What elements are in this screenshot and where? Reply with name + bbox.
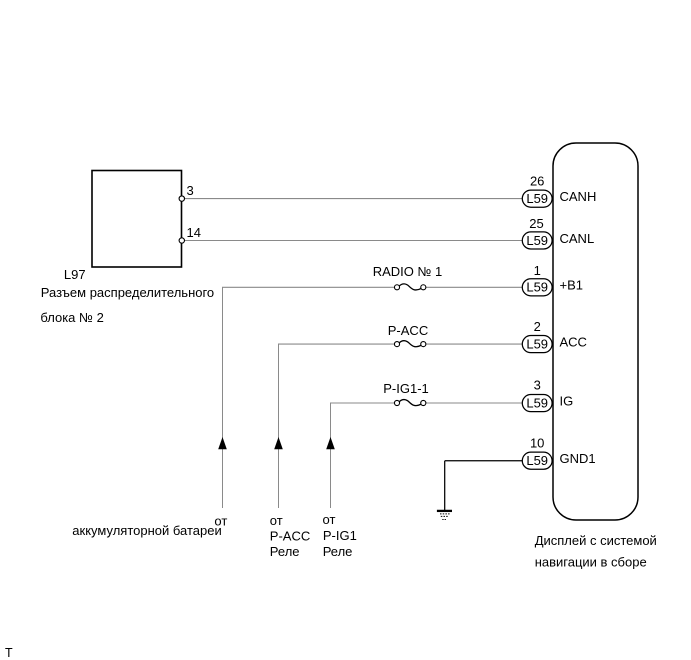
footnote letter	[5, 646, 13, 660]
arrow P-IG1 relay feed	[326, 437, 335, 449]
connector oval L59 pin 2	[522, 319, 587, 353]
svg-text:Дисплей с системой: Дисплей с системой	[535, 533, 657, 548]
label L97	[64, 267, 86, 282]
wire ACC vertical	[278, 344, 280, 508]
label P-ACC relay feed	[270, 513, 310, 559]
svg-text:Реле: Реле	[270, 544, 300, 559]
svg-text:3: 3	[534, 378, 541, 393]
svg-text:от: от	[323, 512, 336, 527]
wire pin14 to L59-25	[183, 240, 523, 242]
svg-text:L59: L59	[526, 233, 548, 248]
svg-text:GND1: GND1	[560, 451, 596, 466]
svg-text:10: 10	[530, 436, 544, 451]
wire ACC horizontal	[278, 343, 523, 345]
fuse P-IG1-1	[394, 400, 425, 406]
connector oval L59 pin 26	[522, 173, 596, 207]
svg-text:блока № 2: блока № 2	[40, 310, 103, 325]
label block name line 2	[40, 310, 103, 325]
fuse RADIO No1	[394, 284, 425, 290]
connector oval L59 pin 10	[522, 436, 595, 470]
connector oval L59 pin 1	[522, 263, 583, 296]
svg-text:P-ACC: P-ACC	[388, 323, 428, 338]
svg-text:L59: L59	[526, 336, 548, 351]
svg-text:CANH: CANH	[560, 189, 597, 204]
label battery feed	[72, 513, 227, 537]
svg-text:+B1: +B1	[560, 278, 584, 293]
pin 3 terminal circle	[179, 183, 194, 201]
label block name line 1	[41, 285, 214, 300]
wire IG vertical	[330, 403, 332, 508]
svg-text:ACC: ACC	[560, 335, 587, 350]
wire +B1 vertical	[222, 287, 224, 508]
pin 14 terminal circle	[179, 225, 201, 243]
svg-text:аккумуляторной батареи: аккумуляторной батареи	[72, 523, 221, 538]
display unit body	[553, 143, 638, 520]
connector box L97	[92, 171, 182, 268]
svg-text:P-IG1-1: P-IG1-1	[383, 381, 429, 396]
svg-text:RADIO № 1: RADIO № 1	[373, 264, 443, 279]
svg-text:P-IG1: P-IG1	[323, 528, 357, 543]
svg-text:L59: L59	[526, 395, 548, 410]
label P-IG1 relay feed	[323, 512, 357, 559]
svg-text:Т: Т	[5, 646, 13, 660]
wire GND1 vertical	[444, 461, 446, 510]
ground	[437, 511, 452, 520]
svg-text:P-ACC: P-ACC	[270, 528, 310, 543]
wire +B1 horizontal	[222, 286, 523, 288]
svg-text:14: 14	[187, 225, 201, 240]
label fuse P-ACC	[388, 323, 428, 338]
label fuse RADIO No1	[373, 264, 443, 279]
connector oval L59 pin 3	[522, 378, 573, 412]
svg-text:2: 2	[534, 319, 541, 334]
arrow P-ACC relay feed	[274, 437, 283, 449]
svg-text:L59: L59	[526, 191, 548, 206]
label fuse P-IG1-1	[383, 381, 429, 396]
svg-text:L59: L59	[526, 453, 548, 468]
wire IG horizontal	[330, 402, 523, 404]
label display unit line 2	[535, 554, 647, 569]
label display unit line 1	[535, 533, 657, 548]
arrow battery feed	[218, 437, 227, 449]
svg-text:1: 1	[534, 263, 541, 278]
svg-text:от: от	[270, 513, 283, 528]
wire GND1 horizontal	[445, 460, 523, 462]
svg-text:IG: IG	[560, 394, 574, 409]
svg-text:Разъем распределительного: Разъем распределительного	[41, 285, 214, 300]
fuse P-ACC	[394, 341, 425, 347]
svg-text:CANL: CANL	[560, 231, 595, 246]
svg-text:26: 26	[530, 173, 544, 188]
svg-text:навигации в сборе: навигации в сборе	[535, 554, 647, 569]
svg-text:L59: L59	[526, 280, 548, 295]
svg-text:L97: L97	[64, 267, 86, 282]
wire pin3 to L59-26	[183, 198, 523, 200]
svg-text:Реле: Реле	[323, 544, 353, 559]
svg-text:25: 25	[529, 216, 543, 231]
svg-text:3: 3	[187, 183, 194, 198]
connector oval L59 pin 25	[522, 216, 594, 249]
